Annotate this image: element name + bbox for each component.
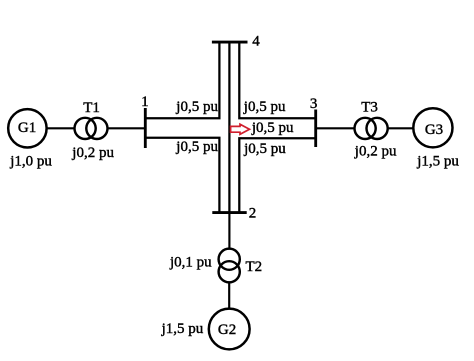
transformer T1	[75, 118, 108, 139]
svg-text:T1: T1	[83, 100, 100, 116]
wire G1 to T1	[47, 127, 75, 129]
generator G2	[209, 309, 250, 350]
line 2-3 (up from bus2 then right to bus3)	[239, 138, 315, 212]
wire bus2 to T2	[228, 213, 230, 249]
wire T3 to G3	[389, 127, 414, 129]
svg-text:G2: G2	[218, 322, 236, 338]
line 4-3 (down from bus4 then right to bus3)	[239, 43, 315, 118]
transformer T3	[355, 118, 388, 139]
wire T1 to bus 1	[108, 127, 145, 129]
svg-text:j0,5 pu: j0,5 pu	[175, 99, 218, 115]
svg-text:1: 1	[141, 94, 149, 110]
transformer T2	[219, 249, 240, 283]
svg-text:j0,5 pu: j0,5 pu	[175, 139, 218, 155]
generator G1	[8, 109, 46, 147]
svg-text:G3: G3	[425, 122, 443, 138]
svg-text:j0,2 pu: j0,2 pu	[354, 143, 397, 159]
svg-text:j1,0 pu: j1,0 pu	[9, 153, 52, 169]
svg-text:j0,2 pu: j0,2 pu	[71, 145, 114, 161]
svg-text:2: 2	[249, 205, 256, 221]
svg-text:3: 3	[310, 96, 318, 112]
svg-text:j0,5 pu: j0,5 pu	[243, 141, 286, 157]
wire T2 to G2	[228, 284, 230, 309]
line 1-4 (bus1 right then up to bus4)	[146, 43, 219, 118]
bus 4	[212, 41, 248, 44]
line 1-2 (bus1 right then down to bus2)	[146, 138, 219, 212]
line 4-2 (straight vertical)	[228, 43, 230, 212]
svg-text:4: 4	[252, 34, 260, 50]
svg-text:G1: G1	[18, 120, 36, 136]
svg-text:j0,5 pu: j0,5 pu	[243, 99, 286, 115]
bus 2	[212, 211, 246, 214]
svg-text:j1,5 pu: j1,5 pu	[416, 153, 459, 169]
bus 3	[314, 110, 317, 148]
flow arrow (red)	[231, 124, 250, 134]
svg-text:j1,5 pu: j1,5 pu	[161, 321, 204, 337]
svg-text:T3: T3	[361, 100, 378, 116]
svg-text:j0,5 pu: j0,5 pu	[251, 120, 294, 136]
generator G3	[413, 108, 452, 147]
svg-text:j0,1 pu: j0,1 pu	[169, 255, 212, 271]
wire bus3 to T3	[317, 127, 356, 129]
svg-text:T2: T2	[246, 259, 263, 275]
bus 1	[144, 108, 147, 148]
